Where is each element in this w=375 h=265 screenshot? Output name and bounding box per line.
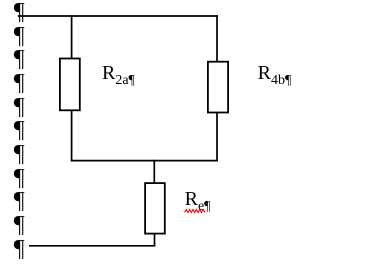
wire below R4b to middle node [216, 113, 218, 162]
label R2a [102, 63, 135, 83]
pilcrow mark line 1 [14, 0, 25, 24]
wire junction T down to Re [153, 160, 155, 183]
wire right vertical from top node to R4b [216, 15, 218, 62]
pilcrow mark line 11 [14, 237, 25, 261]
pilcrow mark line 9 [14, 189, 25, 213]
wire below R2a to middle node [71, 110, 73, 161]
wire bottom horizontal return [29, 245, 155, 247]
pilcrow mark line 8 [14, 166, 25, 190]
resistor R2a [60, 59, 80, 111]
wire below Re to bottom [154, 234, 156, 246]
pilcrow mark line 5 [14, 95, 25, 119]
label R4b [258, 63, 292, 83]
spellcheck squiggle under Re [184, 208, 208, 214]
pilcrow mark line 7 [14, 142, 25, 166]
pilcrow mark line 6 [14, 118, 25, 142]
pilcrow mark line 2 [14, 24, 25, 48]
resistor R4b [208, 62, 228, 113]
pilcrow mark line 10 [14, 213, 25, 237]
pilcrow mark line 4 [14, 71, 25, 95]
pilcrow mark line 3 [14, 47, 25, 71]
wire left vertical from top node to R2a [71, 15, 73, 58]
wire middle horizontal (node B) [71, 160, 218, 162]
wire top horizontal (node A) [18, 15, 218, 17]
resistor Re [145, 183, 165, 234]
label Re [185, 189, 211, 209]
